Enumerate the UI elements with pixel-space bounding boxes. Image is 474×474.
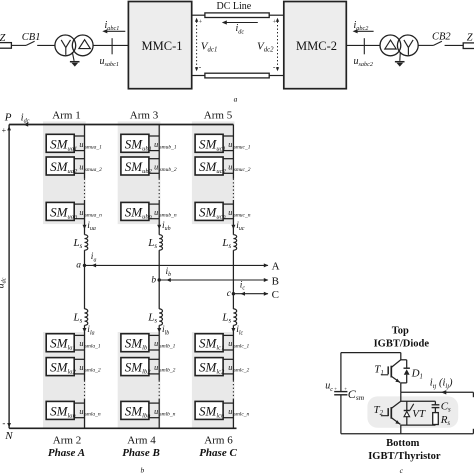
svg-text:Arm 6: Arm 6 bbox=[204, 434, 233, 446]
svg-text:Arm 2: Arm 2 bbox=[53, 434, 81, 446]
svg-text:C: C bbox=[272, 289, 279, 301]
svg-text:CB2: CB2 bbox=[432, 32, 451, 43]
svg-text:Arm 1: Arm 1 bbox=[52, 110, 80, 122]
svg-text:MMC-2: MMC-2 bbox=[296, 39, 337, 53]
svg-text:-: - bbox=[2, 418, 5, 428]
svg-text:Arm 5: Arm 5 bbox=[204, 110, 233, 122]
svg-text:Arm 3: Arm 3 bbox=[130, 110, 159, 122]
svg-text:MMC-1: MMC-1 bbox=[142, 39, 183, 53]
svg-text:Top: Top bbox=[392, 326, 409, 337]
svg-text:A: A bbox=[272, 261, 280, 273]
svg-text:+: + bbox=[334, 387, 337, 392]
svg-text:Phase A: Phase A bbox=[48, 447, 85, 459]
svg-text:DC Line: DC Line bbox=[217, 1, 252, 12]
svg-text:Z: Z bbox=[0, 33, 6, 44]
svg-text:N: N bbox=[4, 430, 13, 442]
svg-text:Bottom: Bottom bbox=[386, 438, 419, 449]
svg-text:b: b bbox=[151, 275, 156, 285]
svg-text:VT: VT bbox=[412, 408, 426, 420]
svg-text:Phase B: Phase B bbox=[122, 447, 160, 459]
svg-text:+: + bbox=[344, 388, 347, 393]
svg-text:+: + bbox=[2, 126, 7, 135]
svg-text:Z: Z bbox=[467, 33, 473, 44]
svg-text:a: a bbox=[234, 94, 238, 103]
svg-text:Arm 4: Arm 4 bbox=[127, 434, 156, 446]
svg-text:CB1: CB1 bbox=[22, 32, 41, 43]
svg-text:P: P bbox=[4, 112, 12, 124]
svg-text:B: B bbox=[272, 275, 279, 287]
svg-text:IGBT/Diode: IGBT/Diode bbox=[374, 339, 430, 350]
svg-text:Phase C: Phase C bbox=[199, 447, 237, 459]
svg-text:a: a bbox=[76, 261, 81, 271]
svg-text:+: + bbox=[273, 19, 277, 26]
svg-text:IGBT/Thyristor: IGBT/Thyristor bbox=[368, 451, 441, 462]
svg-text:b: b bbox=[141, 466, 145, 474]
svg-text:+: + bbox=[199, 19, 203, 26]
